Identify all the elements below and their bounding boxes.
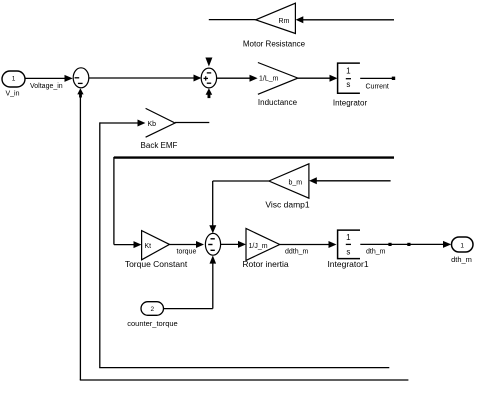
- wire S2 to Inductance: [217, 75, 258, 82]
- wire into Back EMF input: [100, 120, 146, 127]
- svg-text:s: s: [346, 248, 350, 257]
- svg-text:Visc damp1: Visc damp1: [265, 200, 310, 210]
- sum block S1 (+ -): [73, 68, 89, 88]
- wire ddth_m (Rotor inertia to Integrator1) with label: [280, 241, 337, 255]
- wire S1 to S2: [89, 75, 202, 82]
- wire current feedback (thick): [114, 157, 394, 248]
- svg-text:Back EMF: Back EMF: [141, 141, 178, 150]
- svg-text:Rm: Rm: [279, 18, 290, 25]
- svg-text:torque: torque: [177, 248, 197, 255]
- output port dth_m: [451, 237, 473, 264]
- integrator block Integrator (1/s): [333, 63, 368, 107]
- wire Inductance to Integrator: [298, 75, 338, 82]
- svg-text:dth_m: dth_m: [451, 255, 472, 264]
- svg-text:Torque Constant: Torque Constant: [125, 259, 188, 269]
- svg-text:Voltage_in: Voltage_in: [30, 83, 63, 90]
- svg-text:s: s: [346, 80, 350, 89]
- S3 top input arrowhead: [209, 225, 216, 233]
- svg-text:counter_torque: counter_torque: [127, 319, 177, 328]
- svg-text:2: 2: [150, 306, 154, 313]
- svg-text:Motor Resistance: Motor Resistance: [243, 40, 306, 49]
- wire dth_m feedback to S1 : vertical and bottom horizontal: [80, 97, 409, 381]
- svg-text:Rotor inertia: Rotor inertia: [242, 259, 289, 269]
- wire Back EMF output to S2 bottom: [175, 122, 209, 124]
- svg-text:Inductance: Inductance: [258, 98, 298, 107]
- svg-text:1/L_m: 1/L_m: [259, 76, 279, 83]
- svg-text:Current: Current: [366, 84, 389, 91]
- S2 bottom input arrowhead (from Back EMF): [206, 88, 213, 98]
- svg-text:1: 1: [346, 67, 351, 76]
- svg-text:b_m: b_m: [289, 179, 303, 186]
- wire counter_torque to S3 bottom: [164, 263, 213, 309]
- svg-text:1: 1: [12, 76, 16, 83]
- gain Motor Resistance Rm: [243, 3, 306, 48]
- svg-text:ddth_m: ddth_m: [285, 248, 309, 255]
- svg-text:dth_m: dth_m: [366, 248, 386, 255]
- gain Visc damp1 b_m: [265, 164, 310, 210]
- wire Current with end dot: [360, 77, 395, 91]
- svg-text:V_in: V_in: [5, 91, 19, 98]
- svg-text:1: 1: [460, 242, 464, 249]
- wire S3 to Rotor inertia: [221, 241, 246, 248]
- sum block S3 (+ - -): [205, 233, 220, 255]
- svg-text:Integrator: Integrator: [333, 99, 368, 108]
- svg-text:1: 1: [346, 233, 351, 242]
- wire Rm input (from right) with arrowhead: [296, 16, 394, 23]
- wire into Visc damp1 input (from right): [309, 177, 391, 184]
- wire dth_m feedback to Back EMF : vertical and bottom horizontal: [99, 122, 389, 367]
- input port V_in: [2, 71, 25, 98]
- wire Voltage_in with label: [25, 75, 73, 90]
- S2 top input arrowhead (from Motor Resistance): [205, 58, 212, 67]
- S3 bottom input arrowhead: [210, 255, 217, 263]
- svg-text:1/J_m: 1/J_m: [249, 243, 268, 250]
- svg-text:Integrator1: Integrator1: [327, 259, 368, 269]
- input port counter_torque: [127, 302, 177, 328]
- gain Rotor inertia 1/J_m: [242, 229, 289, 270]
- wire dth_m to output port with label and junction dots: [360, 241, 451, 255]
- gain Back EMF Kb (open triangle): [141, 108, 178, 150]
- gain Torque Constant Kt: [125, 231, 188, 269]
- wire torque (Kt to S3) with label: [170, 241, 205, 255]
- svg-text:Kb: Kb: [148, 121, 157, 128]
- gain Inductance 1/L_m (open triangle): [258, 63, 298, 108]
- svg-text:Kt: Kt: [145, 243, 152, 250]
- sum S1 bottom input arrow and stem: [77, 88, 83, 97]
- wire Rm output (left): [209, 19, 256, 21]
- wire Visc damp1 output to S3 top: [213, 181, 269, 226]
- integrator block Integrator1 (1/s): [327, 230, 368, 269]
- sum block S2 (+ - -): [201, 68, 216, 88]
